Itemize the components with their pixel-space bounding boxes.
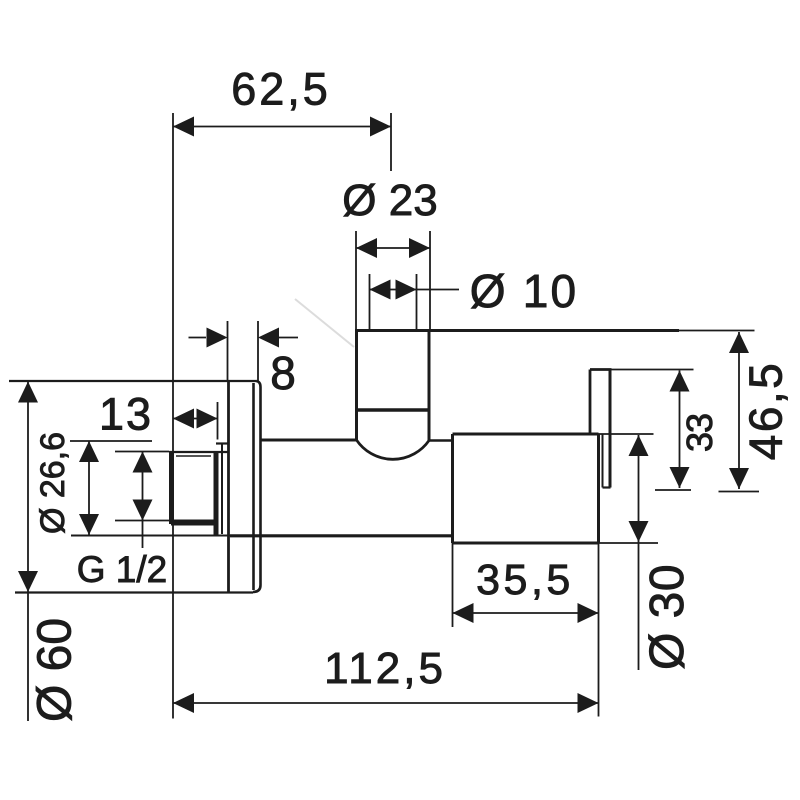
svg-text:G 1/2: G 1/2 <box>77 549 168 590</box>
dim 8 left extension line <box>227 321 229 381</box>
dim Ø23 dimension line <box>356 247 430 249</box>
body right end face <box>597 434 600 543</box>
dim 62,5 right extension line <box>390 113 392 171</box>
dim G1/2 top extension line <box>115 451 169 453</box>
wall flange inner right face line <box>252 383 255 590</box>
dim Ø26,6 dimension line <box>88 441 90 535</box>
arrowhead G1/2 up <box>133 452 153 473</box>
wall flange top edge with extension to Ø60 dim <box>9 380 256 382</box>
arrowhead 112,5 left <box>173 693 194 713</box>
arrowhead Ø26,6 down <box>79 514 99 535</box>
arrowhead 35,5 left <box>453 603 474 623</box>
svg-text:112,5: 112,5 <box>324 644 446 693</box>
faint scan streak artifact <box>295 299 354 347</box>
arrowhead 112,5 right <box>578 693 599 713</box>
svg-text:62,5: 62,5 <box>231 64 331 115</box>
ledge between pipe and right section <box>429 439 453 442</box>
arrowhead Ø23 right <box>409 238 430 258</box>
arrowhead Ø10 right <box>396 280 417 300</box>
svg-text:8: 8 <box>270 347 296 399</box>
svg-text:Ø 23: Ø 23 <box>342 176 437 225</box>
dim 35,5 left extension line <box>452 543 454 627</box>
arrowhead 46,5 down <box>729 468 749 489</box>
body top edge left of pipe <box>260 439 357 442</box>
dim Ø60 dimension line <box>27 382 29 722</box>
outlet upright top edge <box>590 368 612 371</box>
arrowhead 13 right <box>197 409 218 429</box>
svg-text:Ø 60: Ø 60 <box>29 618 82 722</box>
outlet upright left edge <box>589 370 592 435</box>
body bottom edge thick part <box>230 534 453 537</box>
dim 8 left tail line <box>189 337 207 339</box>
arrowhead 35,5 right <box>578 603 599 623</box>
dim 35,5 dimension line <box>453 612 599 614</box>
dim 112,5 dimension line <box>173 702 599 704</box>
wall flange bottom edge with extension to Ø60 dim <box>15 591 253 593</box>
svg-text:Ø 30: Ø 30 <box>641 564 694 670</box>
arrowhead Ø23 left <box>356 238 377 258</box>
svg-text:35,5: 35,5 <box>476 556 574 604</box>
arrowhead 8 right (pointing left) <box>258 328 279 348</box>
dim Ø10 left extension line <box>369 274 371 330</box>
vertical pipe left edge <box>355 331 358 441</box>
dim Ø26,6 top extension line <box>70 440 152 442</box>
right Ø30 section left edge <box>451 434 454 543</box>
dim 62,5 left extension line (long, shared with 112,5) <box>172 113 174 719</box>
outlet upright bottom tick <box>603 486 611 488</box>
arrowhead 33 up <box>670 371 690 392</box>
dim 13 right extension line <box>217 402 219 440</box>
dim 33 top extension line <box>612 369 694 371</box>
wall flange left edge <box>227 381 230 592</box>
vertical pipe right edge <box>428 331 431 441</box>
G1/2 thread inner top line <box>176 455 211 457</box>
dim Ø10 right extension line <box>416 274 418 330</box>
G1/2 thread top edge <box>169 451 229 453</box>
dim Ø23 left extension line <box>355 231 357 330</box>
dim 8 right tail line <box>279 337 298 339</box>
dim Ø23 right extension line <box>429 231 431 330</box>
dim 8 right extension line <box>257 321 259 381</box>
dim 62,5 dimension line <box>173 126 391 128</box>
arrowhead 46,5 up <box>729 332 749 353</box>
outlet upright right edge <box>609 370 612 488</box>
dim 33 bottom tick line <box>655 489 691 491</box>
outlet upright inner hidden edge <box>602 434 604 488</box>
arrowhead G1/2 down <box>133 500 153 521</box>
dim 46,5 top extension line <box>679 330 755 332</box>
pipe rounded dome tip <box>357 440 430 459</box>
dim 13 dimension line <box>173 418 218 420</box>
G1/2 thread right bar / neck left <box>214 452 219 535</box>
arrowhead 33 down <box>670 467 690 488</box>
svg-text:Ø 26,6: Ø 26,6 <box>34 432 72 534</box>
arrowhead Ø10 left <box>370 280 391 300</box>
dim Ø30 dimension line <box>638 435 640 670</box>
dim 33 dimension line <box>679 371 681 489</box>
arrowhead Ø26,6 up <box>79 441 99 462</box>
arrowhead 62,5 right <box>370 117 391 137</box>
G1/2 thread left end bar <box>169 452 174 524</box>
neck collar top edge <box>216 442 229 444</box>
pipe cross line <box>357 408 430 411</box>
dim 35,5 / 112,5 right extension line <box>598 543 600 717</box>
dim G1/2 leader line <box>142 452 144 549</box>
arrowhead 8 left (pointing right) <box>207 328 228 348</box>
arrowhead 62,5 left <box>173 117 194 137</box>
dim 46,5 bottom tick line <box>719 491 760 493</box>
svg-text:46,5: 46,5 <box>740 361 792 461</box>
svg-text:13: 13 <box>99 389 153 440</box>
arrowhead 13 left <box>173 409 194 429</box>
dim 46,5 dimension line <box>738 332 740 489</box>
top outline line (pipe top and upper body) <box>355 329 679 332</box>
arrowhead Ø60 down <box>18 571 38 592</box>
right Ø30 section bottom edge <box>453 542 599 545</box>
dim G1/2 bottom extension line <box>115 520 169 522</box>
svg-text:33: 33 <box>679 414 720 452</box>
dim Ø30 top extension line <box>599 433 654 435</box>
dim Ø30 bottom extension line <box>599 542 659 544</box>
neck collar face line <box>221 444 223 535</box>
arrowhead Ø60 up <box>18 382 38 403</box>
arrowhead Ø30 down <box>629 521 649 542</box>
G1/2 thread bottom bar <box>171 520 216 526</box>
wall flange outer right edge (rounded corners) <box>253 381 261 592</box>
right Ø30 section top edge <box>453 433 599 436</box>
svg-text:Ø 10: Ø 10 <box>470 265 579 317</box>
body bottom edge thin part over thread/flange <box>71 535 230 537</box>
arrowhead Ø30 up <box>629 435 649 456</box>
dim Ø10 dimension and leader line <box>370 289 460 291</box>
